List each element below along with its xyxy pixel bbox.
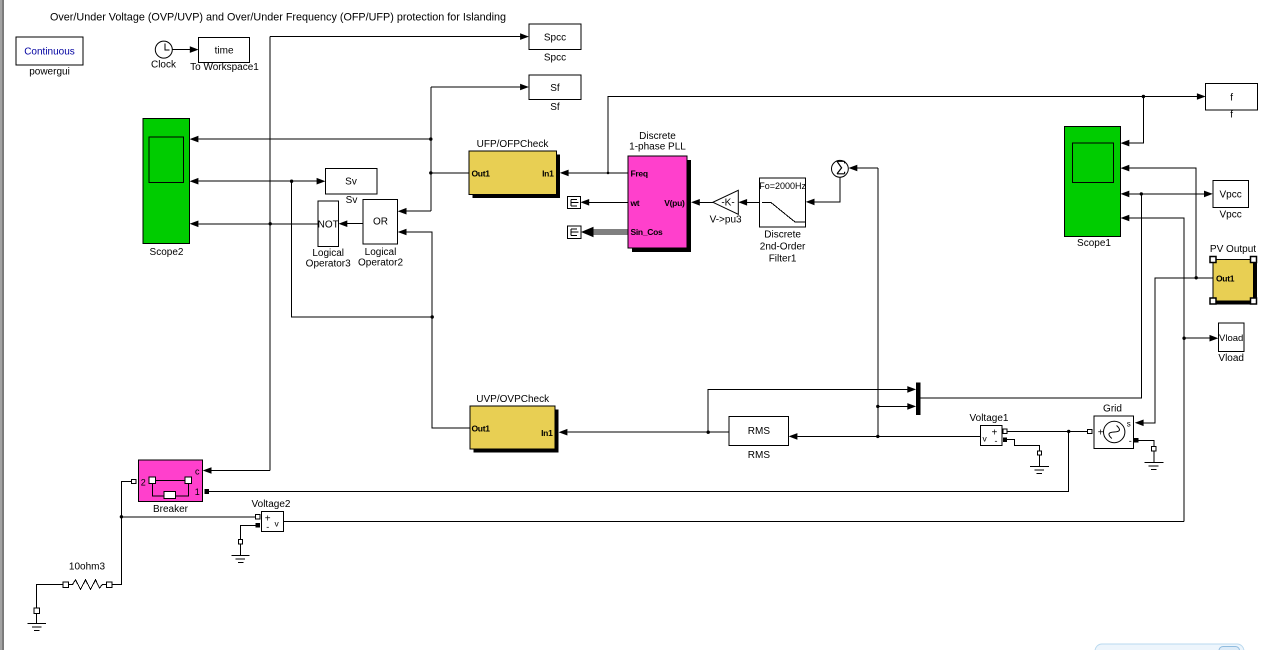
svg-text:Spcc: Spcc	[544, 33, 566, 44]
port Voltage1 -	[1003, 438, 1007, 442]
subsystem Discrete 1-phase PLL shadow	[632, 160, 691, 252]
wire Voltage2 v output long	[284, 520, 1184, 522]
node junction to Voltage2	[120, 515, 123, 518]
RMS block	[729, 416, 788, 445]
svg-text:Scope2: Scope2	[150, 247, 184, 258]
svg-text:time: time	[215, 46, 234, 57]
ground for 10ohm3	[34, 608, 40, 614]
tooltip widget bottom right	[1095, 644, 1244, 650]
svg-text:Out1: Out1	[472, 168, 491, 178]
svg-text:Vpcc: Vpcc	[1219, 190, 1241, 201]
wire to Sv block input	[292, 180, 317, 182]
svg-text:Discrete: Discrete	[639, 131, 676, 142]
svg-text:Voltage1: Voltage1	[970, 413, 1009, 424]
svg-text:Grid: Grid	[1103, 404, 1122, 415]
Voltage1 measurement block	[981, 426, 1003, 446]
wire PV Output net	[1144, 278, 1214, 423]
port Grid -	[1134, 438, 1138, 442]
Grid AC source block	[1094, 416, 1133, 448]
node Vpcc net junction	[1140, 192, 1143, 195]
wire trip vertical	[269, 37, 271, 471]
wire to Scope2 in1	[199, 138, 431, 140]
svg-text:In1: In1	[542, 168, 554, 178]
wire Voltage1 + to Grid +	[1007, 430, 1087, 432]
wire RMS to Mux in1	[708, 389, 907, 432]
svg-text:In1: In1	[541, 428, 553, 438]
wire to Sf	[431, 86, 521, 88]
breaker block	[138, 460, 202, 501]
svg-text:Sv: Sv	[346, 195, 358, 206]
ground for Voltage2	[238, 540, 242, 544]
node Sv branch junction	[290, 180, 293, 183]
wire to Mux in2	[878, 405, 908, 407]
Spcc block	[529, 24, 581, 49]
wire sum output to filter	[815, 177, 840, 202]
wire Voltage1 v to RMS input	[798, 435, 981, 437]
port Grid +	[1088, 429, 1092, 433]
node junction Mux in2	[876, 405, 879, 408]
wire to Scope1 in1	[1129, 97, 1143, 144]
wire Voltage2 v net vertical	[1129, 218, 1184, 521]
subsystem UVP/OVPCheck shadow	[474, 410, 559, 453]
svg-text:V->pu3: V->pu3	[710, 215, 742, 226]
svg-text:wt: wt	[630, 198, 640, 208]
To Workspace1 block (time)	[199, 37, 250, 62]
svg-text:c: c	[195, 466, 200, 476]
wire PLL Freq to UFP In1	[569, 172, 629, 174]
svg-text:Vload: Vload	[1218, 353, 1244, 364]
port Voltage1 +	[1003, 429, 1007, 433]
svg-text:Filter1: Filter1	[769, 254, 797, 265]
svg-text:Logical: Logical	[312, 248, 344, 259]
subsystem Discrete 1-phase PLL	[628, 156, 687, 248]
mux bar	[916, 382, 921, 415]
svg-text:Out1: Out1	[472, 423, 491, 433]
wire Sv net horizontal branch	[292, 181, 433, 317]
Sf block	[529, 75, 581, 100]
port Voltage2 +	[256, 515, 260, 519]
svg-text:Operator3: Operator3	[306, 259, 351, 270]
logical operator OR block	[363, 200, 398, 244]
logical operator NOT block	[318, 201, 339, 247]
ground for Grid	[1152, 447, 1156, 451]
wire OR output to NOT input	[347, 223, 363, 225]
svg-text:1-phase PLL: 1-phase PLL	[629, 142, 686, 153]
wire to Scope1 in2	[1129, 168, 1196, 278]
wire UFP Out1 net vertical	[430, 87, 432, 211]
svg-text:1: 1	[195, 487, 200, 497]
svg-text:Over/Under Voltage (OVP/UVP) a: Over/Under Voltage (OVP/UVP) and Over/Un…	[50, 12, 506, 24]
svg-text:2nd-Order: 2nd-Order	[760, 242, 806, 253]
selection handles PV Output	[1210, 257, 1216, 263]
subsystem UVP/OVPCheck	[470, 406, 555, 449]
subsystem UFP/OFPCheck shadow	[473, 154, 560, 198]
node UFP out junction to Scope2	[429, 137, 432, 140]
svg-text:Spcc: Spcc	[544, 53, 566, 64]
svg-text:Scope1: Scope1	[1077, 238, 1111, 249]
svg-text:Voltage2: Voltage2	[252, 499, 291, 510]
node junction on v wire	[876, 435, 879, 438]
svg-text:2: 2	[141, 478, 146, 488]
wire filter to gain	[747, 201, 760, 203]
svg-text:Vload: Vload	[1219, 333, 1243, 344]
svg-text:Sv: Sv	[345, 177, 357, 188]
clock	[155, 41, 172, 58]
svg-text:Discrete: Discrete	[764, 230, 801, 241]
powergui block	[16, 37, 83, 65]
wire NOT output to Scope2 in3	[199, 223, 318, 225]
svg-text:-K-: -K-	[721, 198, 734, 209]
node RMS output junction	[707, 431, 710, 434]
wire gain to PLL V(pu)	[700, 201, 713, 203]
svg-text:V(pu): V(pu)	[664, 198, 685, 208]
wire Voltage1 - to ground	[1007, 440, 1039, 451]
svg-text:Sf: Sf	[550, 102, 560, 113]
svg-text:-: -	[995, 436, 998, 446]
terminator E1	[568, 197, 581, 209]
sum block	[832, 160, 849, 177]
svg-text:OR: OR	[373, 217, 388, 228]
wire RMS output to UVP In1	[567, 431, 729, 433]
wire down to breaker wire	[209, 431, 1069, 491]
wire PLL wt to E1	[589, 201, 628, 203]
svg-text:NOT: NOT	[318, 219, 339, 230]
wire vertical Vpcc inst net	[877, 168, 879, 436]
Vpcc display block	[1213, 181, 1249, 208]
svg-text:Out1: Out1	[1216, 273, 1235, 283]
svg-text:-: -	[1129, 436, 1132, 446]
port Breaker 2	[132, 479, 136, 483]
svg-text:PV Output: PV Output	[1210, 244, 1256, 255]
terminator E2	[568, 226, 581, 239]
port Breaker 1	[204, 489, 209, 494]
svg-text:-: -	[266, 522, 269, 532]
wire to Scope1 in3	[1129, 193, 1141, 195]
wire Vload input	[1184, 337, 1210, 339]
svg-text:UVP/OVPCheck: UVP/OVPCheck	[476, 394, 550, 405]
node Freq junction	[607, 172, 610, 175]
svg-text:s: s	[1127, 420, 1131, 429]
node UFP Out1 connection	[429, 171, 432, 174]
ground for Voltage1	[1037, 451, 1041, 455]
svg-text:RMS: RMS	[748, 450, 771, 461]
wire to OR in1	[406, 210, 431, 212]
wire to Voltage2 +	[121, 516, 255, 518]
wire Breaker 2 to resistor	[112, 482, 132, 585]
svg-text:Breaker: Breaker	[153, 504, 189, 515]
svg-text:Clock: Clock	[151, 60, 177, 71]
window left edge	[0, 0, 3, 650]
svg-text:Sin_Cos: Sin_Cos	[631, 227, 663, 237]
Sv block	[325, 169, 377, 194]
gain V->pu3	[713, 190, 738, 214]
Vload display block	[1218, 323, 1244, 352]
wire mux output to Vpcc net	[921, 194, 1142, 398]
wire Sv net: UVP Out1 to Sv and Scope2 in2	[407, 232, 471, 428]
svg-text:Continuous: Continuous	[24, 47, 75, 58]
node trip junction on NOT output wire	[269, 222, 272, 225]
svg-text:Logical: Logical	[365, 247, 397, 258]
svg-text:+: +	[1098, 428, 1104, 439]
svg-text:Fo=2000Hz: Fo=2000Hz	[759, 181, 806, 191]
svg-text:f: f	[1230, 110, 1233, 121]
node PV net junction	[1195, 276, 1198, 279]
wire sum input from Vpcc instantaneous	[857, 167, 878, 169]
wire trip net: NOT output to Spcc / Scope2 / Breaker c	[270, 36, 520, 38]
subsystem UFP/OFPCheck	[469, 151, 556, 195]
svg-text:10ohm3: 10ohm3	[69, 562, 106, 573]
wire PLL Sin_Cos vector to E2	[593, 230, 628, 234]
wire trip to Breaker c	[211, 470, 270, 472]
subsystem PV Output	[1213, 260, 1254, 302]
svg-text:UFP/OFPCheck: UFP/OFPCheck	[477, 139, 550, 150]
wire UFP Out1	[431, 172, 469, 174]
svg-text:Vpcc: Vpcc	[1219, 210, 1241, 221]
discrete 2nd-order filter1 block	[760, 178, 806, 227]
svg-text:Sf: Sf	[550, 83, 560, 94]
svg-text:Operator2: Operator2	[358, 258, 403, 269]
svg-text:To Workspace1: To Workspace1	[190, 62, 259, 73]
wire Voltage2 - to ground	[241, 525, 256, 539]
f display block	[1206, 84, 1258, 110]
svg-text:Freq: Freq	[631, 168, 648, 178]
wire to Vpcc display	[1141, 193, 1204, 195]
node Vload junction	[1182, 337, 1185, 340]
svg-text:RMS: RMS	[748, 426, 771, 437]
wire Grid - to ground	[1139, 440, 1154, 446]
wire resistor left to ground	[37, 585, 63, 608]
Scope1 block	[1064, 127, 1120, 237]
wire to Scope2 in2	[199, 180, 292, 182]
wire Freq to f display	[608, 97, 1198, 173]
Voltage2 measurement block	[261, 511, 283, 531]
wire clock to time	[172, 49, 190, 51]
node junction to breaker net	[1067, 430, 1070, 433]
node Sv net junction	[431, 315, 434, 318]
port Voltage2 -	[256, 523, 260, 527]
svg-text:powergui: powergui	[29, 67, 70, 78]
node f wire junction	[1142, 95, 1145, 98]
subsystem PV Output shadow	[1217, 263, 1258, 305]
Scope2 block	[143, 119, 190, 244]
svg-text:f: f	[1230, 93, 1233, 104]
